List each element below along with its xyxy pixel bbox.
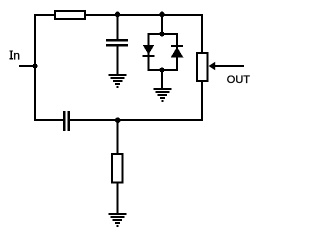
svg-text:n: n [13, 48, 20, 62]
svg-text:OUT: OUT [227, 74, 251, 86]
